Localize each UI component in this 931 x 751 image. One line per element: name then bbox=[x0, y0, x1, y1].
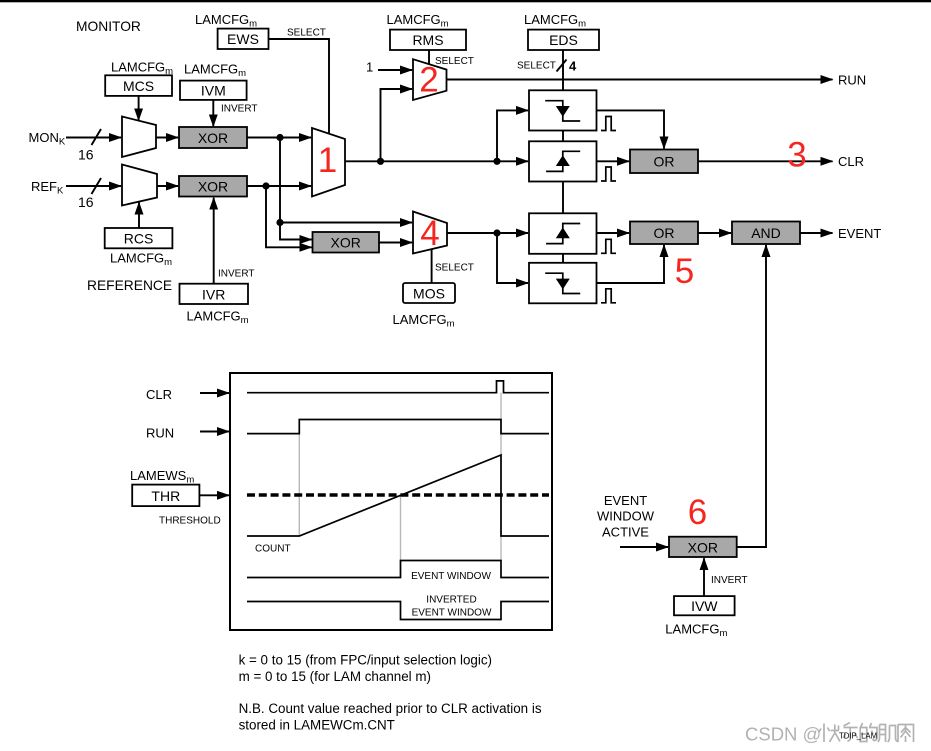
node junction before ED3 bbox=[493, 229, 500, 236]
svg-text:LAMCFGm: LAMCFGm bbox=[184, 62, 246, 80]
mux 1 main select bbox=[312, 128, 345, 197]
svg-text:6: 6 bbox=[688, 493, 707, 532]
svg-text:LAMCFGm: LAMCFGm bbox=[195, 12, 257, 30]
wire EDS select down to ED1 bbox=[562, 50, 564, 90]
wire XOR R output to mux1 bbox=[247, 185, 311, 187]
wire ED2 output to OR1 bbox=[597, 160, 630, 162]
svg-text:XOR: XOR bbox=[688, 539, 718, 555]
register IVR bbox=[180, 284, 249, 304]
svg-text:TDIP_LAM: TDIP_LAM bbox=[839, 732, 877, 741]
svg-text:16: 16 bbox=[78, 146, 94, 162]
svg-text:WINDOW: WINDOW bbox=[597, 509, 655, 524]
wire MONk input bbox=[66, 137, 121, 139]
svg-text:k = 0 to 15 (from FPC/input se: k = 0 to 15 (from FPC/input selection lo… bbox=[239, 653, 492, 668]
gate XOR 3 bbox=[313, 232, 380, 253]
svg-text:5: 5 bbox=[675, 252, 694, 291]
watermark glyph rou bbox=[898, 725, 914, 743]
svg-text:MONITOR: MONITOR bbox=[76, 19, 141, 34]
watermark glyph kuai bbox=[819, 724, 840, 743]
svg-text:CSDN @: CSDN @ bbox=[745, 724, 821, 745]
register IVM bbox=[180, 81, 247, 100]
svg-text:LAMCFGm: LAMCFGm bbox=[524, 12, 586, 30]
wire mux1 output row to ED2 bbox=[345, 160, 528, 162]
svg-text:LAMCFGm: LAMCFGm bbox=[187, 309, 249, 327]
pulse symbol ED1 bbox=[601, 117, 616, 131]
svg-text:CLR: CLR bbox=[146, 387, 172, 402]
wire RCS select to reference mux bbox=[138, 203, 140, 229]
svg-text:LAMEWSm: LAMEWSm bbox=[130, 468, 194, 486]
svg-text:INVERT: INVERT bbox=[218, 269, 255, 280]
svg-text:THRESHOLD: THRESHOLD bbox=[159, 516, 221, 527]
gate XOR R (reference) bbox=[179, 176, 247, 197]
svg-text:LAMCFGm: LAMCFGm bbox=[387, 12, 449, 30]
waveform EVENT WINDOW bbox=[247, 561, 549, 578]
pulse symbol ED4 bbox=[601, 289, 616, 303]
svg-text:EWS: EWS bbox=[227, 31, 259, 47]
svg-text:ACTIVE: ACTIVE bbox=[602, 524, 649, 539]
waveform threshold dashed bbox=[247, 493, 549, 496]
register IVW bbox=[674, 596, 735, 615]
svg-text:INVERT: INVERT bbox=[221, 104, 258, 115]
svg-text:SELECT: SELECT bbox=[287, 28, 326, 39]
node junction on reference row bbox=[262, 182, 269, 189]
svg-text:THR: THR bbox=[151, 488, 180, 504]
svg-text:RUN: RUN bbox=[146, 426, 174, 441]
svg-text:IVM: IVM bbox=[201, 83, 226, 99]
waveform COUNT ramp bbox=[247, 455, 549, 536]
mux monitor select bbox=[122, 117, 156, 158]
bus slash EDS select bbox=[557, 60, 567, 72]
svg-text:XOR: XOR bbox=[198, 179, 228, 195]
svg-text:LAMCFGm: LAMCFGm bbox=[393, 312, 455, 330]
wire AND output to EVENT bbox=[800, 232, 833, 234]
svg-text:IVR: IVR bbox=[202, 287, 225, 303]
mux 4 event select bbox=[413, 212, 447, 254]
svg-text:N.B. Count value reached prior: N.B. Count value reached prior to CLR ac… bbox=[239, 701, 542, 716]
wire OR2 output to AND bbox=[698, 232, 731, 234]
node junction on monitor row bbox=[276, 134, 283, 141]
wire EWS select to mux1 bbox=[269, 39, 330, 133]
svg-text:EVENT: EVENT bbox=[838, 226, 881, 241]
gate AND bbox=[732, 222, 800, 245]
svg-text:1: 1 bbox=[366, 60, 373, 75]
svg-text:SELECT: SELECT bbox=[435, 56, 474, 67]
svg-text:SELECT: SELECT bbox=[435, 263, 474, 274]
svg-text:RMS: RMS bbox=[412, 32, 443, 48]
mux 2 run select bbox=[413, 59, 447, 100]
svg-text:m = 0 to 15 (for LAM channel m: m = 0 to 15 (for LAM channel m) bbox=[239, 669, 431, 684]
waveform RUN bbox=[247, 420, 549, 434]
svg-text:IVW: IVW bbox=[691, 598, 718, 614]
gate OR 1 bbox=[630, 150, 698, 174]
wire ED4 output to OR2 bottom bbox=[597, 245, 665, 283]
svg-text:RUN: RUN bbox=[838, 73, 866, 88]
register MOS bbox=[403, 283, 455, 303]
bus slash MON bbox=[92, 129, 102, 145]
guide line t3 bbox=[500, 393, 502, 561]
waveform CLR bbox=[247, 381, 549, 393]
pulse symbol ED3 bbox=[601, 239, 616, 253]
wire mux2 output to RUN bbox=[447, 79, 833, 81]
svg-text:AND: AND bbox=[751, 225, 781, 241]
wire CLR arrow into diagram bbox=[200, 392, 229, 394]
wire down to ED4 input bbox=[497, 233, 528, 283]
register EDS bbox=[528, 30, 599, 50]
node junction mux1 out feedback bbox=[377, 158, 384, 165]
wire RMS select to mux2 bbox=[428, 50, 430, 64]
wire feedback up to mux2 input bbox=[381, 89, 413, 161]
svg-text:3: 3 bbox=[787, 136, 806, 175]
edge detector ED2 rising bbox=[529, 141, 597, 181]
register RCS bbox=[105, 228, 173, 248]
svg-text:MCS: MCS bbox=[123, 78, 154, 94]
wire ED3 output to OR2 bbox=[597, 232, 630, 234]
wire event window active into XOR6 bbox=[620, 546, 668, 548]
wire IVM invert to XOR M bbox=[212, 100, 214, 126]
svg-text:REFERENCE: REFERENCE bbox=[87, 278, 172, 293]
wire IVR invert to XOR R bbox=[213, 198, 215, 284]
wire XOR6 up to AND bottom bbox=[737, 245, 766, 547]
svg-text:EDS: EDS bbox=[549, 32, 578, 48]
svg-text:2: 2 bbox=[419, 61, 438, 100]
wire THR arrow into diagram bbox=[199, 494, 229, 496]
wire EDS chain ED3-ED4 bbox=[562, 254, 564, 263]
svg-text:OR: OR bbox=[654, 225, 675, 241]
timing diagram frame bbox=[230, 373, 552, 630]
wire monitor mux to XOR M bbox=[156, 137, 178, 139]
node junction before ED2 bbox=[493, 158, 500, 165]
svg-text:INVERTED: INVERTED bbox=[426, 594, 476, 605]
register EWS bbox=[218, 29, 269, 49]
gate XOR M (monitor) bbox=[179, 127, 247, 148]
svg-text:EVENT: EVENT bbox=[604, 493, 647, 508]
svg-text:SELECT: SELECT bbox=[517, 61, 556, 72]
wire REFk input bbox=[66, 185, 121, 187]
bus slash REF bbox=[92, 178, 102, 194]
wire ED1 output to OR1 top bbox=[597, 110, 665, 148]
guide line t2 bbox=[400, 495, 402, 578]
pulse symbol ED2 bbox=[601, 167, 616, 181]
svg-text:1: 1 bbox=[318, 141, 337, 180]
wire up to ED1 input bbox=[497, 110, 528, 161]
svg-text:16: 16 bbox=[78, 194, 94, 210]
wire reference mux to XOR R bbox=[157, 185, 178, 187]
svg-text:LAMCFGm: LAMCFGm bbox=[110, 251, 172, 269]
node junction to mux4 top input bbox=[276, 219, 283, 226]
gate OR 2 bbox=[630, 222, 698, 245]
watermark glyph le bbox=[843, 723, 858, 742]
wire RUN arrow into diagram bbox=[200, 431, 229, 433]
svg-text:INVERT: INVERT bbox=[711, 575, 748, 586]
wire XOR3 output to mux4 bbox=[379, 242, 412, 244]
mux reference select bbox=[122, 165, 157, 206]
waveform INVERTED EVENT WINDOW bbox=[247, 602, 549, 620]
svg-text:LAMCFGm: LAMCFGm bbox=[665, 622, 727, 640]
wire XOR M output to mux1 bbox=[247, 137, 311, 139]
svg-text:4: 4 bbox=[420, 214, 439, 253]
watermark glyph de bbox=[860, 723, 877, 742]
svg-text:COUNT: COUNT bbox=[255, 544, 291, 555]
gate XOR 6 bbox=[669, 537, 737, 557]
register RMS bbox=[390, 30, 466, 50]
wire to mux4 top input bbox=[280, 222, 412, 224]
svg-text:4: 4 bbox=[569, 59, 577, 74]
wire mux4 output row to ED3 bbox=[447, 232, 528, 234]
svg-text:MOS: MOS bbox=[413, 286, 445, 302]
wire branch down from monitor row to XOR3 bbox=[280, 138, 312, 240]
wire constant 1 to mux2 bbox=[378, 69, 412, 71]
svg-text:RCS: RCS bbox=[124, 231, 154, 247]
svg-text:EVENT WINDOW: EVENT WINDOW bbox=[411, 571, 491, 582]
edge detector ED4 falling bbox=[529, 263, 597, 304]
svg-text:stored in LAMEWCm.CNT: stored in LAMEWCm.CNT bbox=[239, 718, 395, 733]
svg-text:OR: OR bbox=[654, 154, 675, 170]
register THR bbox=[132, 485, 199, 507]
guide line t1 bbox=[298, 434, 300, 536]
register MCS bbox=[105, 75, 172, 96]
wire MCS select to monitor mux bbox=[138, 96, 140, 120]
svg-text:XOR: XOR bbox=[198, 130, 228, 146]
watermark glyph ji bbox=[878, 725, 898, 743]
edge detector ED1 falling bbox=[529, 90, 597, 130]
wire EDS chain ED2-ED3 bbox=[562, 182, 564, 214]
wire mux4 select to MOS bbox=[431, 249, 433, 283]
svg-text:XOR: XOR bbox=[331, 235, 361, 251]
wire branch down from reference row to XOR3 bbox=[266, 186, 312, 247]
svg-text:LAMCFGm: LAMCFGm bbox=[111, 60, 173, 78]
wire EDS chain ED1-ED2 bbox=[562, 131, 564, 142]
svg-text:CLR: CLR bbox=[838, 154, 864, 169]
edge detector ED3 rising bbox=[529, 213, 597, 254]
svg-text:EVENT WINDOW: EVENT WINDOW bbox=[412, 607, 492, 618]
wire OR1 output to CLR bbox=[698, 160, 833, 162]
wire IVW invert to XOR6 bbox=[703, 558, 705, 596]
